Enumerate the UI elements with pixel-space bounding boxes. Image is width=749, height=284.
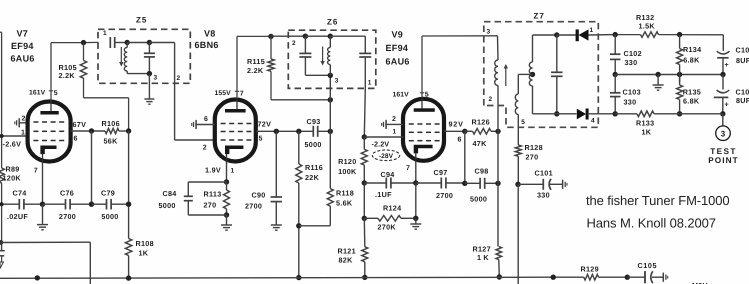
svg-text:5: 5 xyxy=(54,90,58,97)
svg-text:4: 4 xyxy=(591,118,595,125)
svg-text:6: 6 xyxy=(204,116,208,123)
svg-text:R113: R113 xyxy=(204,190,222,199)
svg-text:6: 6 xyxy=(74,136,78,143)
svg-text:C106: C106 xyxy=(736,46,749,55)
svg-text:R126: R126 xyxy=(472,118,490,127)
svg-text:92V: 92V xyxy=(449,120,464,129)
svg-text:330: 330 xyxy=(625,58,638,67)
svg-text:R120: R120 xyxy=(338,157,356,166)
svg-text:EF94: EF94 xyxy=(11,41,34,51)
svg-text:V9: V9 xyxy=(392,30,404,40)
svg-text:+: + xyxy=(725,102,729,109)
svg-text:.02UF: .02UF xyxy=(7,212,28,221)
svg-text:-28V: -28V xyxy=(379,153,394,160)
svg-text:47K: 47K xyxy=(473,139,488,148)
svg-text:V7: V7 xyxy=(17,29,29,39)
svg-text:82K: 82K xyxy=(339,256,354,265)
svg-text:2: 2 xyxy=(489,96,493,103)
svg-text:2.2K: 2.2K xyxy=(59,71,76,80)
svg-text:C79: C79 xyxy=(101,189,115,198)
svg-text:R128: R128 xyxy=(525,143,543,152)
svg-text:6: 6 xyxy=(458,137,462,144)
svg-text:R124: R124 xyxy=(383,204,401,213)
svg-text:5000: 5000 xyxy=(101,212,118,221)
svg-text:7: 7 xyxy=(34,168,38,175)
svg-text:155V: 155V xyxy=(215,90,232,97)
svg-text:C101: C101 xyxy=(535,169,553,178)
svg-text:2: 2 xyxy=(22,116,26,123)
svg-text:56K: 56K xyxy=(104,137,119,146)
svg-text:R116: R116 xyxy=(305,163,323,172)
svg-text:6.8K: 6.8K xyxy=(683,96,700,105)
svg-text:22K: 22K xyxy=(305,173,320,182)
svg-text:R115: R115 xyxy=(247,57,265,66)
svg-text:5000: 5000 xyxy=(159,201,176,210)
svg-text:270: 270 xyxy=(526,152,539,161)
svg-text:1: 1 xyxy=(103,30,107,37)
svg-text:1K: 1K xyxy=(139,249,149,258)
svg-text:R106: R106 xyxy=(102,119,120,128)
svg-text:1K: 1K xyxy=(642,128,652,137)
svg-text:Hans M. Knoll 08.2007: Hans M. Knoll 08.2007 xyxy=(587,215,716,230)
svg-text:72V: 72V xyxy=(258,120,272,129)
svg-text:R135: R135 xyxy=(683,88,701,97)
svg-text:2700: 2700 xyxy=(245,201,262,210)
svg-text:6AU6: 6AU6 xyxy=(11,54,35,64)
svg-text:EF94: EF94 xyxy=(386,43,409,53)
svg-text:5000: 5000 xyxy=(470,195,487,204)
svg-text:5.6K: 5.6K xyxy=(336,199,353,208)
svg-text:7: 7 xyxy=(406,165,410,172)
svg-text:1: 1 xyxy=(393,129,397,136)
svg-text:1: 1 xyxy=(368,80,372,87)
svg-text:2700: 2700 xyxy=(436,191,453,200)
svg-text:R121: R121 xyxy=(338,247,356,256)
svg-text:330: 330 xyxy=(537,191,550,200)
svg-text:67V: 67V xyxy=(73,120,87,129)
svg-text:6AU6: 6AU6 xyxy=(386,57,410,67)
svg-text:8UF: 8UF xyxy=(736,56,749,65)
svg-text:270K: 270K xyxy=(378,223,397,232)
svg-text:Z7: Z7 xyxy=(534,12,545,21)
svg-text:C103: C103 xyxy=(623,88,641,97)
svg-text:5: 5 xyxy=(259,135,263,142)
svg-text:161V: 161V xyxy=(29,90,46,97)
svg-text:1: 1 xyxy=(21,130,25,137)
svg-text:Z6: Z6 xyxy=(327,18,338,27)
svg-text:C98: C98 xyxy=(475,167,489,176)
svg-text:C97: C97 xyxy=(434,168,448,177)
svg-text:1.5K: 1.5K xyxy=(639,22,656,31)
svg-text:POINT: POINT xyxy=(708,156,739,165)
svg-text:3: 3 xyxy=(487,29,491,36)
svg-text:-2.6V: -2.6V xyxy=(3,140,22,149)
svg-text:C76: C76 xyxy=(60,189,74,198)
svg-text:3: 3 xyxy=(154,75,158,82)
svg-text:7: 7 xyxy=(240,90,244,97)
svg-text:1: 1 xyxy=(590,27,594,34)
svg-text:C105: C105 xyxy=(638,261,658,270)
svg-text:C84: C84 xyxy=(163,189,177,198)
svg-text:330: 330 xyxy=(624,98,637,107)
svg-text:C90: C90 xyxy=(252,191,266,200)
svg-text:2700: 2700 xyxy=(59,212,76,221)
svg-text:-2.2V: -2.2V xyxy=(372,139,390,148)
svg-text:R129: R129 xyxy=(581,265,599,274)
svg-text:R132: R132 xyxy=(636,13,654,22)
svg-text:2.2K: 2.2K xyxy=(247,66,264,75)
svg-text:5000: 5000 xyxy=(305,140,322,149)
svg-text:R133: R133 xyxy=(636,119,654,128)
svg-text:C94: C94 xyxy=(381,170,395,179)
svg-text:161V: 161V xyxy=(393,92,410,99)
svg-text:2: 2 xyxy=(292,40,296,47)
svg-text:100K: 100K xyxy=(338,167,357,176)
svg-text:+: + xyxy=(725,62,729,69)
svg-text:6.8K: 6.8K xyxy=(683,56,700,65)
svg-text:R89: R89 xyxy=(6,165,20,174)
svg-text:R108: R108 xyxy=(136,239,154,248)
svg-text:V8: V8 xyxy=(204,29,216,39)
svg-text:270: 270 xyxy=(204,201,217,210)
svg-text:8UF: 8UF xyxy=(736,96,749,105)
svg-text:C74: C74 xyxy=(13,189,27,198)
svg-text:TEST: TEST xyxy=(710,147,737,156)
svg-text:120K: 120K xyxy=(3,174,22,183)
svg-text:3: 3 xyxy=(721,130,726,139)
svg-text:6BN6: 6BN6 xyxy=(195,40,219,50)
svg-text:the fisher Tuner FM-1000: the fisher Tuner FM-1000 xyxy=(586,193,730,208)
svg-text:.1UF: .1UF xyxy=(375,190,392,199)
svg-text:Z5: Z5 xyxy=(136,16,147,25)
svg-text:2: 2 xyxy=(392,116,396,123)
svg-text:R118: R118 xyxy=(336,189,354,198)
svg-text:2: 2 xyxy=(177,75,181,82)
svg-text:C93: C93 xyxy=(307,117,321,126)
svg-text:2: 2 xyxy=(203,145,207,152)
svg-text:1: 1 xyxy=(231,167,235,174)
svg-text:5: 5 xyxy=(521,119,525,126)
svg-text:C107: C107 xyxy=(736,87,749,96)
svg-text:1 K: 1 K xyxy=(477,253,489,262)
svg-text:3: 3 xyxy=(335,78,339,85)
svg-text:1.9V: 1.9V xyxy=(205,165,221,174)
svg-text:C102: C102 xyxy=(624,49,642,58)
svg-text:R134: R134 xyxy=(683,45,701,54)
